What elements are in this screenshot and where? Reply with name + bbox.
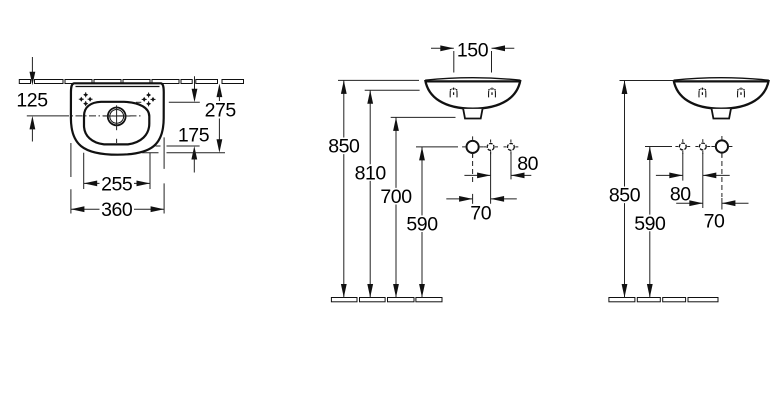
svg-text:150: 150 bbox=[457, 40, 489, 62]
svg-text:850: 850 bbox=[328, 136, 360, 158]
svg-text:590: 590 bbox=[406, 214, 438, 236]
svg-text:80: 80 bbox=[670, 183, 691, 205]
svg-text:175: 175 bbox=[178, 124, 210, 146]
svg-text:700: 700 bbox=[380, 186, 412, 208]
svg-text:590: 590 bbox=[634, 213, 666, 235]
svg-text:360: 360 bbox=[101, 199, 133, 221]
svg-text:80: 80 bbox=[517, 153, 538, 175]
svg-text:125: 125 bbox=[16, 90, 48, 112]
svg-text:70: 70 bbox=[470, 202, 491, 224]
svg-text:70: 70 bbox=[704, 210, 725, 232]
svg-text:810: 810 bbox=[355, 163, 387, 185]
svg-text:275: 275 bbox=[205, 100, 237, 122]
svg-text:255: 255 bbox=[101, 173, 133, 195]
svg-text:850: 850 bbox=[609, 185, 641, 207]
